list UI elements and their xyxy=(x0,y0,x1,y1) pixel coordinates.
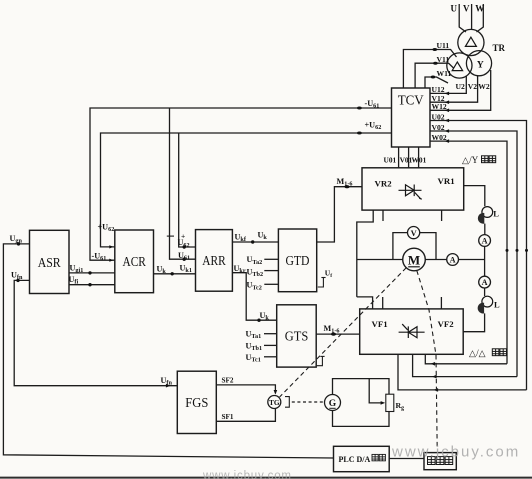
svg-text:A: A xyxy=(482,278,488,287)
node dots on return verticals xyxy=(506,249,509,252)
wire A2 to inductor L2 xyxy=(484,288,486,296)
svg-text:V: V xyxy=(463,3,470,13)
wire Ufi ASR to ACR xyxy=(69,284,115,286)
wire wiper arrow into Rg xyxy=(381,401,386,405)
wire W12 arrow xyxy=(445,109,450,113)
svg-text:SF1: SF1 xyxy=(222,413,234,421)
wire U12 row from transformer U2 xyxy=(430,76,466,94)
wire +U62 branch down to ARR xyxy=(179,133,196,247)
node U61 dot at ARR xyxy=(183,258,186,261)
svg-text:www.jcbuy.com: www.jcbuy.com xyxy=(391,444,520,461)
svg-text:U12: U12 xyxy=(432,85,445,94)
wire phase U into transformer xyxy=(459,4,466,32)
svg-text:V: V xyxy=(411,229,417,238)
svg-text:Y: Y xyxy=(477,61,484,71)
wire A3 to reactor column xyxy=(459,259,485,261)
ammeter A2 xyxy=(479,276,491,288)
block GTD trigger unit forward xyxy=(278,229,316,292)
wire -U61 bus from TCV to ACR xyxy=(90,108,392,260)
wire V12 row from transformer V2 xyxy=(430,76,478,103)
node W11 dot xyxy=(431,76,436,79)
wire Ukf ARR to GTD xyxy=(232,241,278,243)
svg-text:△/△: △/△ xyxy=(469,348,486,358)
svg-text:TR: TR xyxy=(493,43,506,53)
tachogenerator TG xyxy=(268,396,281,409)
ammeter A3 xyxy=(447,254,459,266)
voltmeter loop wire xyxy=(393,233,408,260)
wire rheostat wiper tap xyxy=(369,379,382,403)
node blocking symbol at GTS xyxy=(317,356,323,365)
wire outer return line U02 side xyxy=(398,354,527,390)
motor M xyxy=(403,248,426,271)
svg-text:U02: U02 xyxy=(432,112,445,121)
svg-text:M: M xyxy=(408,252,420,267)
wire VF stub terminal b xyxy=(440,297,442,309)
wire U01 stub TCV to VR xyxy=(398,147,400,168)
wire U12 arrow xyxy=(445,92,450,96)
block optical encoder (guang ma pan) xyxy=(424,453,456,470)
node Uk junction dot xyxy=(171,272,174,275)
wire U11 TCV to transformer xyxy=(403,50,456,89)
svg-text:SF2: SF2 xyxy=(222,377,234,385)
wire Ukr ARR down to GTS xyxy=(232,273,276,321)
node Ufn junction at ASR xyxy=(16,279,19,282)
svg-text:ACR: ACR xyxy=(122,255,146,270)
svg-text:△/Y: △/Y xyxy=(462,155,479,165)
svg-text:GTS: GTS xyxy=(285,330,309,345)
svg-text:U2: U2 xyxy=(456,82,465,91)
node M1-6 dot at VF wire xyxy=(331,333,336,336)
svg-text:U01: U01 xyxy=(384,156,397,165)
svg-text:W02: W02 xyxy=(432,133,447,142)
wire UTc1 stub into GTS xyxy=(264,356,277,358)
wire VR right edge to reactor column xyxy=(464,186,485,207)
svg-text:W2: W2 xyxy=(478,82,490,91)
svg-text:W01: W01 xyxy=(412,156,427,165)
block ACR current regulator xyxy=(115,230,154,293)
voltmeter V xyxy=(408,227,420,239)
block FGS frequency-voltage converter xyxy=(177,371,216,433)
ammeter A1 xyxy=(479,235,491,247)
thyristor symbol in VR bridge xyxy=(399,185,422,200)
svg-text:G: G xyxy=(329,399,337,409)
svg-text:A: A xyxy=(482,237,488,246)
block ASR speed regulator xyxy=(30,230,70,293)
wire Ugi1 ASR to ACR xyxy=(69,272,115,274)
svg-text:W: W xyxy=(475,3,484,13)
transformer TR secondary circle left (delta) xyxy=(447,53,472,78)
wire dashed link TG to pilot generator G xyxy=(292,401,324,403)
wire Ugn reference from PLC (left vertical + bottom run) xyxy=(3,244,333,458)
wire SF1 FGS to TG xyxy=(216,409,275,422)
svg-text:PLC D/A: PLC D/A xyxy=(339,455,371,464)
wire VF stub terminal a xyxy=(382,297,384,309)
svg-text:L: L xyxy=(494,300,500,310)
wire DC bus to motor xyxy=(357,259,403,261)
wire VR stub terminal b xyxy=(441,210,443,221)
wire +U62 arrow into ACR xyxy=(109,245,113,248)
svg-text:V02: V02 xyxy=(432,123,445,132)
node Ufi junction dot xyxy=(88,283,91,286)
wire UTa2 stub into GTD xyxy=(264,258,278,260)
node delta symbol primary xyxy=(465,37,476,46)
block TCV synchronous voltage unit U1 xyxy=(392,88,431,147)
wire dashed shaft link motor to TG xyxy=(280,268,407,397)
wire U02 row from outer return line xyxy=(430,121,527,390)
node Ugn junction xyxy=(17,242,20,245)
thyristor symbol in VF bridge xyxy=(399,324,425,338)
svg-text:VF1: VF1 xyxy=(372,319,388,329)
wire VR stub terminal a xyxy=(382,210,384,221)
wire Ufn arrow into FGS xyxy=(166,384,171,388)
svg-text:ARR: ARR xyxy=(202,254,226,269)
wire UTb1 stub into GTS xyxy=(264,344,277,346)
svg-text:A: A xyxy=(450,256,456,265)
wire Uk ACR to ARR xyxy=(154,273,196,275)
wire VR output to left DC bus xyxy=(357,210,373,297)
wire -U61 arrow into ACR xyxy=(109,259,113,262)
wire V02 arrow xyxy=(445,129,450,133)
inductor L1 xyxy=(482,207,493,218)
node V11 dot xyxy=(433,62,438,65)
svg-text:GTD: GTD xyxy=(286,254,310,269)
wire W01 stub TCV to VR xyxy=(418,147,420,168)
wire dashed shaft link motor to encoder xyxy=(417,271,437,450)
node TG brush symbol xyxy=(285,397,289,408)
wire V02 row from middle return line xyxy=(430,131,517,377)
svg-text:V2: V2 xyxy=(468,82,477,91)
node U11 dot xyxy=(433,48,438,51)
wire UTc2 stub into GTD xyxy=(264,283,278,285)
wire W02 row from inner return line xyxy=(430,141,507,364)
block ARR logic reversing unit xyxy=(196,230,233,292)
svg-text:U11: U11 xyxy=(437,41,450,50)
wire DC bus into VF top xyxy=(357,297,373,309)
wire M1-6 GTS to VF bridge xyxy=(316,333,360,335)
inductor L2 xyxy=(482,296,493,307)
wire outer return arrow xyxy=(434,388,439,392)
svg-text:VR2: VR2 xyxy=(375,178,393,188)
node delta symbol secondary left xyxy=(452,62,462,71)
wire UTa1 stub into GTS xyxy=(264,333,277,335)
wire V11 TCV to transformer xyxy=(415,63,453,88)
wire PLC to optical encoder xyxy=(389,458,424,460)
wire W02 arrow xyxy=(445,139,450,143)
wire -U61 branch down to ARR xyxy=(170,108,196,259)
wire SF2 arrow into TG xyxy=(274,390,278,395)
wire L1 to ammeter A1 xyxy=(484,224,486,235)
node Uk dot at GTS input xyxy=(257,319,260,322)
svg-text:VF2: VF2 xyxy=(438,319,455,329)
wire V12 arrow xyxy=(445,100,450,104)
node M1-6 dot at VR wire xyxy=(344,185,349,188)
wire +U62 bus from TCV to ACR xyxy=(101,133,392,247)
block GTS trigger unit reverse xyxy=(277,305,317,367)
svg-text:W11: W11 xyxy=(437,69,452,78)
wire inner return line W02 side xyxy=(425,354,507,364)
wire L2 down to VF right side xyxy=(463,313,484,331)
node Ugi1 junction dot xyxy=(88,271,91,274)
svg-text:www.jcbuy.com: www.jcbuy.com xyxy=(202,470,292,479)
svg-text:ASR: ASR xyxy=(38,256,62,271)
wire G loop bottom xyxy=(333,411,390,427)
svg-text:W12: W12 xyxy=(432,102,447,111)
transformer TR secondary circle right (Y) xyxy=(466,51,491,76)
wire Ufn vertical to FGS xyxy=(14,280,177,385)
block VF forward thyristor bridge xyxy=(360,309,464,354)
node +U62 dot near TCV xyxy=(357,132,362,135)
wire W11 TCV to transformer xyxy=(425,77,448,88)
wire UTb2 stub into GTD xyxy=(264,270,278,272)
svg-text:TG: TG xyxy=(269,398,280,407)
node Uf blocking symbol at GTD xyxy=(318,278,324,288)
wire inner return arrow xyxy=(431,362,436,366)
node Ukf junction dot xyxy=(251,240,254,243)
svg-text:U: U xyxy=(451,3,458,13)
wire middle return line V02 side xyxy=(413,354,517,376)
block VR reverse thyristor bridge xyxy=(362,168,464,210)
svg-text:TCV: TCV xyxy=(398,93,424,108)
wire V01 stub TCV to VR xyxy=(408,147,410,168)
transformer TR primary circle (delta) xyxy=(458,29,484,55)
node -U61 dot near TCV xyxy=(357,107,362,110)
wire A1 to A2 xyxy=(484,246,486,276)
wire phase V into transformer xyxy=(471,4,473,30)
svg-text:FGS: FGS xyxy=(185,396,208,411)
svg-text:VR1: VR1 xyxy=(438,176,455,186)
svg-text:L: L xyxy=(493,209,499,219)
wire phase W into transformer xyxy=(477,4,484,32)
svg-text:V11: V11 xyxy=(437,55,450,64)
resistor Rg xyxy=(386,394,394,411)
node U62 dot at ARR xyxy=(183,245,186,248)
wire W12 row from transformer W2 xyxy=(430,70,491,110)
wire G loop top xyxy=(333,379,390,395)
pilot generator G xyxy=(325,395,341,411)
node minus sign left of U61 branch xyxy=(167,235,174,237)
node scan border bottom xyxy=(0,477,532,479)
wire M1-6 GTD to VR bridge xyxy=(317,187,362,242)
wire SF2 FGS to TG xyxy=(216,385,275,393)
block PLC D/A interface xyxy=(334,446,390,471)
wire U02 arrow xyxy=(445,119,450,123)
wire middle return arrow xyxy=(432,375,437,379)
wire motor to ammeter A3 xyxy=(425,259,446,261)
